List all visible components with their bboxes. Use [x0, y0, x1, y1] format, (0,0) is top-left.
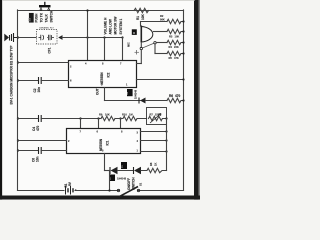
- IC1 pin5 down: [104, 154, 106, 171]
- svg-text:TALK: TALK: [45, 14, 49, 23]
- svg-text:PUSH: PUSH: [35, 13, 39, 23]
- svg-text:1K: 1K: [154, 163, 158, 166]
- svg-text:R8: R8: [149, 162, 153, 166]
- svg-text:R10: R10: [122, 113, 127, 117]
- svg-text:BV-1 CARBON MIC/SPKR 8Ω 0.5W T: BV-1 CARBON MIC/SPKR 8Ω 0.5W TYP: [9, 45, 13, 105]
- svg-text:MIC: MIC: [127, 42, 131, 47]
- wire supply loop: [18, 10, 184, 12]
- wire pin2 from bus: [17, 61, 19, 63]
- svg-text:SWITCH: SWITCH: [132, 177, 136, 190]
- battery B1: [65, 186, 75, 195]
- svg-text:10K: 10K: [105, 113, 110, 117]
- svg-text:CF1: CF1: [48, 47, 52, 53]
- wire x87 rail to IC2: [87, 10, 89, 61]
- wire bus to IC1 pin2: [17, 139, 19, 141]
- arrow into filter: [58, 35, 62, 40]
- node dots on y37: [86, 36, 88, 38]
- capacitor C4 row y119: [17, 117, 19, 119]
- svg-text:470: 470: [175, 94, 181, 98]
- mic-speaker symbol left: [5, 33, 18, 42]
- wire pin7 right to rail: [137, 79, 184, 81]
- border bottom: [0, 196, 200, 200]
- svg-text:OUT: OUT: [96, 88, 100, 95]
- dashed filter box: [37, 27, 58, 54]
- svg-text:R7: R7: [150, 113, 154, 117]
- svg-text:10K: 10K: [141, 13, 145, 20]
- wire to bottom rail: [109, 171, 111, 191]
- svg-text:CERAMIC FLT: CERAMIC FLT: [39, 27, 54, 30]
- trimmer R7 box: [147, 108, 168, 125]
- switch S1: [117, 187, 139, 197]
- capacitor C6: [17, 149, 19, 151]
- IC1 right pins to x166: [141, 131, 167, 133]
- border top: [3, 0, 195, 1]
- node stubs to IC1 top: [79, 117, 81, 119]
- svg-text:10n: 10n: [37, 87, 41, 93]
- resistor R9: [101, 116, 115, 120]
- IC timer U1 NE555N: [67, 129, 141, 154]
- resistor R6: [167, 98, 184, 102]
- svg-text:R3: R3: [169, 35, 173, 39]
- svg-text:S1: S1: [139, 182, 143, 186]
- wire row R5 y53 + vertical from switch throw: [154, 44, 156, 54]
- svg-text:R4: R4: [169, 45, 173, 49]
- resistor R8: [141, 168, 167, 172]
- wire filter to node x87: [62, 37, 123, 39]
- border right: [194, 0, 199, 200]
- wire x122: [122, 38, 124, 61]
- wire x104: [104, 38, 106, 61]
- svg-text:47K: 47K: [174, 56, 179, 60]
- svg-text:MOTOR SW: MOTOR SW: [114, 17, 118, 35]
- svg-text:ON/OFF: ON/OFF: [127, 178, 131, 190]
- capacitor C2: [17, 79, 19, 81]
- svg-text:10n: 10n: [36, 156, 40, 162]
- svg-text:SYSTEM 1: SYSTEM 1: [119, 19, 123, 35]
- label S2 press-to-talk text block: [28, 10, 54, 22]
- wire IC2 right pin to switch pole: [137, 63, 142, 65]
- wire x166 vertical: [166, 119, 168, 171]
- svg-text:R1: R1: [136, 16, 140, 20]
- svg-text:1N4148: 1N4148: [117, 177, 127, 181]
- svg-text:SWTCH: SWTCH: [50, 10, 54, 22]
- diode D1: [105, 170, 111, 172]
- svg-text:22K: 22K: [155, 113, 160, 117]
- svg-text:10K: 10K: [175, 35, 180, 39]
- svg-text:R2: R2: [160, 14, 164, 18]
- svg-text:22K: 22K: [174, 45, 179, 49]
- resistor R10: [119, 117, 121, 119]
- svg-text:R9: R9: [99, 113, 103, 117]
- diode D3: [127, 89, 133, 96]
- IC timer U2 NE555N: [69, 61, 137, 88]
- diode label box: [109, 175, 115, 182]
- wire row R3 y31.5: [154, 31, 168, 33]
- svg-text:M: M: [133, 32, 135, 35]
- switch S3 lever + row R4 y42: [140, 43, 142, 48]
- svg-text:470: 470: [36, 125, 40, 131]
- wire row R2 y21: [141, 21, 168, 23]
- svg-text:AND LOW: AND LOW: [109, 19, 113, 34]
- pushbutton S2: [39, 2, 51, 11]
- svg-text:TO TK: TO TK: [40, 12, 44, 22]
- resistor R1 in top rail: [134, 8, 149, 12]
- svg-text:1N4148: 1N4148: [134, 89, 138, 99]
- volume switch text block: [104, 17, 124, 35]
- svg-text:IC2: IC2: [107, 72, 111, 77]
- svg-text:R6: R6: [169, 94, 173, 98]
- wire node mic to filter: [17, 36, 19, 38]
- svg-text:VOLUME H: VOLUME H: [104, 17, 108, 35]
- svg-text:IC1: IC1: [106, 140, 110, 145]
- svg-text:1M: 1M: [129, 113, 133, 117]
- microphone MIC1: [132, 26, 153, 43]
- diode D2: [133, 167, 135, 174]
- border left: [0, 0, 2, 200]
- svg-text:S2: S2: [28, 17, 32, 21]
- svg-text:56K: 56K: [160, 17, 165, 21]
- svg-text:R5: R5: [169, 56, 173, 60]
